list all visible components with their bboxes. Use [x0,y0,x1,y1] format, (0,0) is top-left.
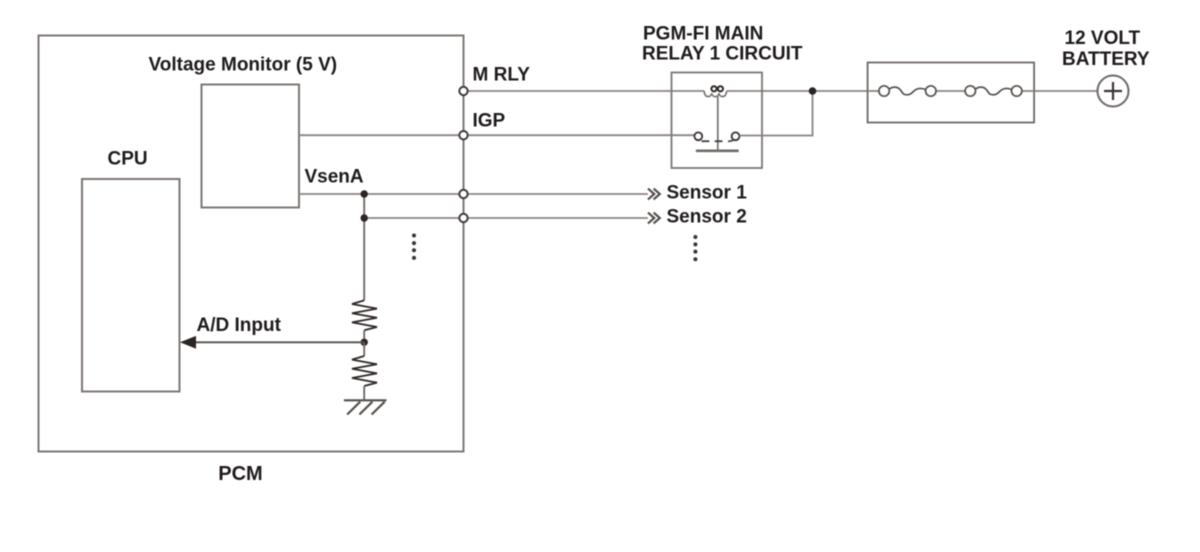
svg-text:M RLY: M RLY [473,65,531,86]
fuse F2 [965,86,1022,96]
wire fuse box to battery [1034,90,1097,92]
wire R2 to ground [363,386,365,400]
sensor 2 chevron connector [648,213,660,224]
pin M RLY at PCM edge [459,87,467,95]
relay contact left [694,132,702,140]
wire fuse box entry segment [868,90,879,92]
resistor R2 (lower divider) [352,356,377,386]
svg-text:12 VOLT: 12 VOLT [1065,28,1141,49]
junction node A/D [361,339,368,346]
svg-text:PGM-FI MAIN: PGM-FI MAIN [643,24,763,45]
battery BT1 [1098,76,1129,107]
wire relay box to fuse box [762,90,868,92]
relay coil K1 [704,91,726,97]
fuse F1 [879,86,936,96]
wire relay switch output [739,91,812,136]
CPU box [82,179,180,392]
wire M RLY rail inside relay box left of coil [672,90,705,92]
wire M RLY rail inside relay box right of coil [727,90,762,92]
ellipsis dots below VsenA junction [412,234,416,260]
svg-text:BATTERY: BATTERY [1062,49,1150,70]
relay box PGM-FI [672,73,763,169]
svg-text:RELAY 1 CIRCUIT: RELAY 1 CIRCUIT [642,44,803,65]
sensor 1 chevron connector [648,189,660,200]
wire vertical VsenA down to divider [363,194,365,300]
arrowhead into CPU [180,336,196,349]
junction node VsenA/sensor1 [361,190,368,197]
pin sensor2 at PCM edge [459,214,467,222]
wire A/D input [195,341,364,343]
wire between fuses [936,90,965,92]
relay contact plate [696,150,739,153]
wire sensor 2 internal [364,217,463,219]
pin sensor1 at PCM edge [459,190,467,198]
relay contact left tail [702,140,710,142]
pin IGP at PCM edge [459,131,467,139]
svg-text:IGP: IGP [473,110,506,131]
relay contact right [732,132,740,140]
svg-text:CPU: CPU [108,149,148,170]
wire junction to R2 [363,342,365,356]
wire M RLY rail: PCM edge to relay box [464,90,672,92]
wire R1 to junction [363,330,365,342]
wire fuse box exit segment [1022,90,1034,92]
wire sensor 2 external [464,217,649,219]
relay contact right tail [728,140,733,143]
ground [344,400,387,414]
svg-text:A/D Input: A/D Input [197,315,282,336]
wire IGP: voltage monitor to relay contact [299,134,695,136]
svg-text:Sensor 2: Sensor 2 [667,206,747,227]
relay armature [717,97,719,151]
wire sensor 1 external [464,193,649,195]
fuse box [868,63,1035,123]
resistor R1 (upper divider) [352,300,377,330]
voltage monitor U1 box [202,85,300,208]
svg-text:Sensor 1: Sensor 1 [667,182,748,203]
svg-text:Voltage Monitor (5 V): Voltage Monitor (5 V) [149,55,338,76]
ellipsis dots below sensor 2 [693,235,697,261]
junction node relay output [809,87,817,95]
svg-text:PCM: PCM [218,463,262,485]
svg-text:VsenA: VsenA [305,167,364,188]
PCM box [39,36,464,452]
junction node sensor2 [361,214,368,221]
relay movable contact tick [715,140,723,142]
wire VsenA: voltage monitor to PCM edge (sensor 1 feed) [299,193,464,195]
